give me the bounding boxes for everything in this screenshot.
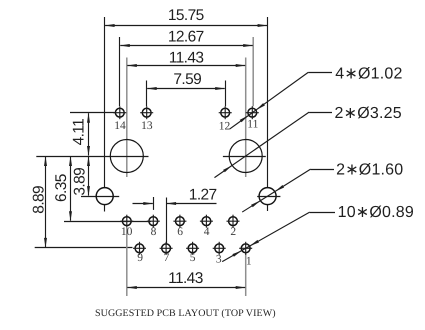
dimension 12.67 pins 14-11 span xyxy=(120,28,253,47)
svg-text:4∗Ø1.02: 4∗Ø1.02 xyxy=(335,65,402,82)
svg-text:13: 13 xyxy=(141,120,153,132)
pad pin 5 xyxy=(186,242,199,255)
extension line right of dim 7.59 (down to pin 12) xyxy=(225,81,227,107)
svg-text:7: 7 xyxy=(164,252,170,264)
extension line below pin 10 xyxy=(126,228,128,296)
svg-text:2: 2 xyxy=(230,226,236,238)
dimension 7.59 pins 13-12 span xyxy=(147,71,226,90)
dimension 3.89 centerline to shield hole xyxy=(71,156,90,196)
pad pin 12 xyxy=(219,106,232,119)
svg-text:10∗Ø0.89: 10∗Ø0.89 xyxy=(338,204,414,221)
dimension 11.43 post-hole span xyxy=(127,49,246,67)
extension line right of dim 11.43 top (through right post hole) xyxy=(245,58,247,178)
pad pin 3 xyxy=(213,242,226,255)
extension line left of dim 15.75 (down to left shield hole) xyxy=(104,17,106,188)
svg-text:12: 12 xyxy=(219,121,231,133)
dimension 4.11 pin row to centerline xyxy=(70,113,90,156)
svg-text:2∗Ø3.25: 2∗Ø3.25 xyxy=(335,105,402,122)
pad pin 14 xyxy=(113,106,126,119)
pad pin 6 xyxy=(173,215,186,228)
svg-text:11.43: 11.43 xyxy=(168,270,203,287)
pad pin 8 xyxy=(147,215,160,228)
pad pin 10 xyxy=(120,215,133,228)
left shield-hole horizontal crosshair with tick xyxy=(81,196,119,198)
pad pin 7 xyxy=(160,242,173,255)
leader for 10*O0.89 to pin 1 xyxy=(222,212,335,261)
shield hole right (O1.60) xyxy=(257,188,280,211)
svg-text:2∗Ø1.60: 2∗Ø1.60 xyxy=(336,161,403,178)
shield hole left (O1.60) xyxy=(96,188,113,212)
extension line right of dim 12.67 (down to pin 11) xyxy=(252,37,254,106)
svg-text:12.67: 12.67 xyxy=(168,28,204,45)
pad pin 2 xyxy=(227,215,240,228)
svg-text:4: 4 xyxy=(204,226,210,238)
svg-text:6.35: 6.35 xyxy=(53,174,70,202)
pad pin 13 xyxy=(140,106,153,119)
svg-text:8: 8 xyxy=(151,226,157,238)
extension line from dim down to pin 7 xyxy=(166,198,168,244)
svg-text:6: 6 xyxy=(177,226,183,238)
extension line below pin 1 xyxy=(245,253,247,296)
upper bottom pin-row extension line left of pin 10 xyxy=(64,221,151,223)
extension line left of dim 12.67 (down to pin 14) xyxy=(119,37,121,106)
svg-text:1: 1 xyxy=(246,255,252,267)
svg-text:11: 11 xyxy=(247,119,258,131)
post hole right (O3.25) xyxy=(223,140,266,173)
svg-text:15.75: 15.75 xyxy=(168,7,204,24)
centerline of post holes extended left xyxy=(36,156,148,158)
dimension 15.75 shield-hole span xyxy=(105,7,268,27)
lower bottom pin-row extension line left of pin 9 xyxy=(35,247,133,249)
svg-text:14: 14 xyxy=(114,120,126,132)
top pin-row extension line left of pin 14 xyxy=(70,112,116,114)
pad pin 4 xyxy=(200,215,213,228)
leader for 2*O1.60 to right shield hole xyxy=(242,169,334,212)
svg-text:8.89: 8.89 xyxy=(30,186,47,214)
svg-text:5: 5 xyxy=(190,252,196,264)
extension line below pin 8 xyxy=(153,197,155,210)
dimension 8.89 centerline to lower pin row xyxy=(30,156,47,248)
svg-text:9: 9 xyxy=(137,252,143,264)
svg-text:11.43: 11.43 xyxy=(169,49,204,66)
post hole left (O3.25) xyxy=(110,140,143,173)
extension line left of dim 7.59 (down to pin 13) xyxy=(146,81,148,107)
svg-text:3.89: 3.89 xyxy=(71,168,88,196)
dimension 1.27 pin pitch right arrow and text xyxy=(166,187,216,205)
dimension 1.27 pin pitch left arrow xyxy=(133,202,154,205)
pad pin 9 xyxy=(133,242,146,255)
svg-text:1.27: 1.27 xyxy=(189,187,217,204)
dimension 6.35 centerline to upper pin row xyxy=(53,156,72,221)
svg-text:10: 10 xyxy=(121,226,133,238)
leader for 4*O1.02 to pin 11 xyxy=(230,72,332,129)
extension line left of dim 11.43 top (through left post hole) xyxy=(126,58,128,178)
leader for 2*O3.25 to right post hole xyxy=(214,112,332,178)
extension line right of dim 15.75 (down to right shield hole) xyxy=(267,17,269,188)
svg-text:SUGGESTED PCB LAYOUT (TOP VIEW: SUGGESTED PCB LAYOUT (TOP VIEW) xyxy=(95,308,276,319)
svg-text:3: 3 xyxy=(216,253,222,265)
svg-text:7.59: 7.59 xyxy=(173,71,201,88)
pad pin 11 xyxy=(246,106,259,119)
svg-text:4.11: 4.11 xyxy=(70,119,87,146)
dimension 11.43 bottom pin span xyxy=(127,270,246,289)
pad pin 1 xyxy=(239,242,252,255)
